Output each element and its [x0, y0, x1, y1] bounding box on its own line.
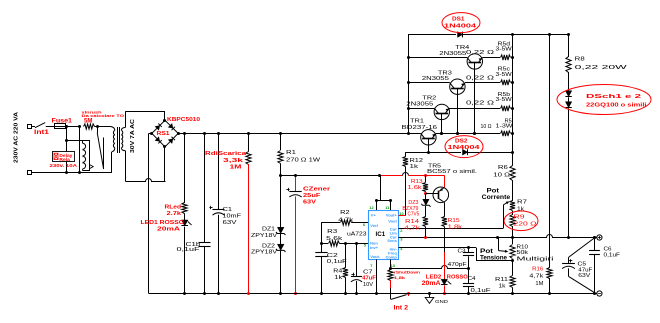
svg-text:R16: R16	[532, 267, 543, 273]
wire R7 wiper to pin2	[503, 205, 505, 228]
svg-text:C4: C4	[468, 276, 476, 282]
svg-text:0,1uF: 0,1uF	[327, 259, 347, 265]
svg-text:Fuse1: Fuse1	[52, 119, 73, 125]
svg-text:3-5W: 3-5W	[496, 97, 512, 103]
svg-text:DS2: DS2	[455, 138, 468, 144]
resistor rShutDown 1.8k	[388, 270, 393, 281]
wire IC1 pin10 red stub	[399, 215, 406, 217]
diode DSch2 22GQ100	[568, 97, 570, 101]
fuse Fuse1	[55, 124, 66, 129]
svg-text:V+: V+	[371, 213, 377, 218]
svg-text:GND: GND	[435, 299, 449, 304]
capacitor C6 0.1uF	[594, 237, 596, 250]
svg-text:R12: R12	[410, 158, 424, 164]
wire relay coil feed	[67, 140, 83, 142]
resistor R7 1k	[512, 180, 514, 201]
relay K1 contact	[97, 127, 99, 133]
svg-text:0,22 Ω: 0,22 Ω	[466, 76, 494, 82]
svg-text:Multigiri: Multigiri	[517, 257, 554, 263]
svg-text:DZ2: DZ2	[262, 243, 275, 249]
resistor R5c 0.22ohm	[465, 82, 500, 84]
svg-text:IC1: IC1	[376, 231, 386, 238]
svg-text:C1: C1	[223, 207, 233, 213]
wire node B down to neutral	[79, 127, 81, 173]
LED LED1	[184, 214, 186, 221]
zener DZ2 ZPY18V	[277, 244, 284, 250]
resistor R12 1k	[405, 167, 407, 216]
op-amp IC1 uA723 body	[369, 211, 399, 260]
svg-text:Vout-: Vout-	[370, 254, 381, 259]
svg-text:25uF: 25uF	[303, 193, 321, 199]
svg-text:1k: 1k	[517, 207, 525, 213]
resistor R8 0.22 20W	[568, 35, 570, 58]
resistor R9 220ohm	[512, 211, 514, 215]
svg-text:RS1: RS1	[157, 131, 170, 137]
svg-text:1N4004: 1N4004	[444, 24, 476, 30]
svg-text:TR1: TR1	[410, 119, 424, 125]
svg-text:Comp: Comp	[385, 255, 397, 260]
diode DS2 1N4004	[463, 149, 468, 155]
svg-text:1-3W: 1-3W	[496, 124, 513, 130]
svg-text:KBPC5010: KBPC5010	[167, 117, 200, 123]
svg-text:Int 2: Int 2	[394, 305, 409, 312]
svg-text:0,22 20W: 0,22 20W	[575, 65, 627, 71]
resistor R16 4.7k 1M bleeder	[549, 35, 551, 268]
wire bottom ground rail	[149, 293, 597, 295]
svg-text:C7: C7	[363, 269, 373, 275]
svg-text:1.6k: 1.6k	[408, 185, 423, 191]
wire node A down to neutral	[66, 127, 68, 173]
resistor R11 1k	[512, 260, 514, 275]
svg-text:Da calcolare TO: Da calcolare TO	[82, 114, 125, 118]
resistor RdiScarica 3.3k 1M	[248, 134, 250, 152]
transistor TR2 2N3055	[408, 108, 434, 110]
IC1 pin 13 wire	[390, 260, 392, 269]
svg-text:R7: R7	[517, 199, 527, 205]
svg-text:Vref: Vref	[370, 223, 378, 228]
svg-text:R4: R4	[333, 269, 342, 275]
svg-text:C2: C2	[327, 253, 338, 259]
diode DSch1 22GQ100	[568, 72, 570, 91]
svg-text:2N3055: 2N3055	[422, 76, 449, 82]
svg-text:4,7k: 4,7k	[404, 225, 420, 231]
svg-text:2N3055: 2N3055	[406, 101, 433, 107]
svg-text:22GQ100 o simili: 22GQ100 o simili	[586, 102, 647, 108]
LED LED2	[441, 279, 447, 284]
diode DS1 1N4004	[458, 32, 463, 38]
wire TR1 base line	[405, 152, 461, 154]
svg-text:ROSSO: ROSSO	[447, 275, 469, 281]
resistor R5d 0.22ohm	[482, 57, 500, 59]
svg-text:R15: R15	[448, 218, 460, 224]
svg-text:5,6k: 5,6k	[326, 236, 343, 242]
transformer T1 secondary	[121, 130, 122, 134]
wire top rail with DS1	[408, 34, 456, 36]
transistor TR1 BD237-16	[421, 130, 436, 145]
svg-text:2.7k: 2.7k	[167, 211, 182, 217]
svg-text:3,3k: 3,3k	[223, 158, 243, 164]
wire output plus	[569, 237, 597, 239]
svg-text:R11: R11	[495, 277, 508, 283]
svg-text:30V 7A AC: 30V 7A AC	[130, 119, 136, 153]
wire secondary top to bridge	[126, 111, 166, 113]
wire RdiScarica to ground red	[248, 164, 250, 294]
svg-text:0,1uF: 0,1uF	[604, 253, 621, 259]
svg-text:C6: C6	[604, 246, 612, 252]
IC1 pin 12 wire	[376, 201, 378, 210]
svg-text:2N3055: 2N3055	[439, 51, 466, 57]
svg-text:R6: R6	[498, 165, 508, 171]
svg-text:RdiScarica: RdiScarica	[205, 151, 247, 157]
svg-text:4,7k: 4,7k	[338, 217, 354, 223]
svg-text:220 Ω: 220 Ω	[514, 222, 537, 228]
wire pin13 to C3 junction with hop	[391, 266, 470, 269]
capacitor C3 470pF	[468, 248, 470, 253]
svg-text:3-5W: 3-5W	[496, 47, 512, 53]
svg-text:DZ1: DZ1	[262, 226, 275, 232]
svg-text:10V: 10V	[363, 282, 374, 288]
svg-text:LED1 ROSSO: LED1 ROSSO	[141, 220, 185, 226]
svg-text:Vout+: Vout+	[386, 213, 398, 218]
svg-text:0,22 Ω: 0,22 Ω	[466, 50, 494, 56]
IC1 pin 11 wire	[390, 201, 392, 210]
node mains neutral terminal	[28, 171, 32, 175]
svg-text:230v. 10A: 230v. 10A	[50, 163, 78, 168]
svg-text:0,1uF: 0,1uF	[177, 247, 200, 253]
resistor Rinrush 5M	[84, 124, 95, 129]
svg-text:20mA: 20mA	[422, 280, 442, 287]
svg-text:ZPY18V: ZPY18V	[251, 250, 278, 256]
wire R2 Vref line	[321, 222, 340, 224]
resistor R4 1k	[345, 243, 347, 267]
resistor R5b 0.22ohm	[449, 108, 500, 110]
svg-text:C7V5: C7V5	[408, 212, 420, 218]
svg-text:R2: R2	[340, 210, 350, 216]
transistor TR4 2N3055	[408, 57, 467, 59]
wire node C to transformer primary	[97, 126, 110, 128]
capacitor C4 0.1uF	[468, 269, 470, 284]
svg-text:63V: 63V	[578, 273, 591, 279]
svg-text:470pF: 470pF	[448, 262, 467, 268]
svg-text:Rela: Rela	[59, 157, 70, 162]
zener DZ3 BZX79 C7V5	[425, 194, 427, 199]
capacitor C5 47uF 63V	[569, 238, 595, 258]
svg-text:7: 7	[370, 263, 372, 268]
svg-text:20mA: 20mA	[157, 227, 180, 233]
svg-text:1,8k: 1,8k	[448, 225, 463, 231]
node output plus terminal	[597, 235, 602, 240]
resistor R6 10ohm	[512, 152, 514, 166]
svg-text:47uF: 47uF	[362, 276, 376, 282]
svg-text:10 Ω: 10 Ω	[481, 124, 492, 130]
svg-text:Tensione: Tensione	[480, 255, 508, 261]
svg-text:C3: C3	[458, 248, 466, 254]
resistor R1 270ohm 1W	[280, 134, 282, 151]
svg-text:0,1uF: 0,1uF	[471, 288, 491, 294]
node mains live terminal	[28, 125, 32, 129]
switch Int1	[31, 126, 35, 128]
wire live to fuse	[46, 126, 55, 128]
svg-text:ZPY18V: ZPY18V	[251, 233, 278, 239]
svg-text:DSch1 e 2: DSch1 e 2	[586, 94, 641, 100]
wire pins 12-11 tie to V+	[376, 200, 391, 202]
resistor R14 4.7k	[423, 217, 428, 227]
svg-text:R1: R1	[286, 150, 296, 156]
wire bridge plus to rail	[178, 133, 185, 135]
svg-text:DS1: DS1	[452, 16, 465, 22]
svg-text:Vout: Vout	[388, 218, 397, 223]
switch Int2	[391, 295, 407, 300]
node output minus terminal	[597, 291, 602, 296]
capacitor C7 47uF 10V	[356, 243, 358, 276]
resistor RLed 2.7k	[184, 134, 186, 204]
svg-text:R3: R3	[327, 229, 337, 235]
wire rShutDown to Int2 red	[390, 280, 392, 288]
resistor R13 1.6k	[425, 175, 427, 182]
resistor R3 5.6k	[321, 243, 328, 245]
zener DZ1 ZPY18V	[277, 227, 284, 233]
wire emitter bus	[512, 35, 514, 153]
wire R10 wiper	[498, 237, 500, 250]
svg-text:Pot: Pot	[480, 249, 493, 255]
wire collector riser	[408, 35, 410, 134]
svg-text:BD237-16: BD237-16	[402, 125, 438, 131]
label Delay Rela box	[53, 152, 75, 162]
svg-text:Inv+: Inv+	[370, 245, 379, 250]
svg-text:Corrente: Corrente	[482, 195, 511, 201]
wire secondary bottom to bridge with hop	[126, 179, 166, 182]
capacitor CZener 25uF 63V	[295, 175, 297, 191]
wire IC1 pin2 line	[399, 228, 504, 230]
svg-text:R9: R9	[514, 215, 525, 221]
svg-text:230V AC 220 VA: 230V AC 220 VA	[14, 112, 20, 163]
wire IC1 pin3 sense line with hop	[399, 235, 569, 238]
wire IC1 pin4 line	[399, 247, 469, 249]
wire R2 corner down	[321, 223, 323, 244]
svg-text:CZener: CZener	[303, 187, 331, 193]
svg-text:Int1: Int1	[34, 130, 50, 136]
svg-text:uA723: uA723	[347, 232, 367, 238]
wire fuse to node A	[66, 126, 80, 128]
resistor R5 10ohm	[436, 133, 500, 135]
svg-text:rShutDown: rShutDown	[394, 271, 420, 275]
svg-text:63V: 63V	[303, 200, 317, 206]
svg-text:1,8k: 1,8k	[394, 276, 405, 280]
svg-text:1M: 1M	[230, 165, 243, 171]
svg-text:R8: R8	[575, 56, 585, 62]
wire R15 to LED2 red	[444, 227, 446, 252]
ground GND	[429, 294, 431, 298]
wire V+ aux line	[281, 175, 380, 177]
potentiometer R10 50k Multigiri	[512, 237, 514, 244]
transformer T1 primary	[111, 127, 115, 131]
svg-text:Sens: Sens	[387, 238, 397, 243]
capacitor C1b 0.1uF	[204, 134, 206, 243]
capacitor C2 0.1uF	[321, 243, 323, 253]
relay actuator arrow	[90, 165, 94, 169]
svg-text:Pot: Pot	[487, 189, 500, 195]
transistor TR3 2N3055	[408, 82, 450, 84]
capacitor C1 10mF 63V	[218, 134, 220, 210]
svg-text:10mF: 10mF	[223, 214, 242, 220]
svg-text:BC557 o simil.: BC557 o simil.	[427, 169, 477, 175]
bridge rectifier RS1 KBPC5010	[152, 120, 178, 147]
svg-text:10 Ω: 10 Ω	[493, 173, 510, 179]
svg-text:4,7k: 4,7k	[529, 274, 544, 280]
svg-text:270 Ω 1W: 270 Ω 1W	[286, 158, 320, 164]
svg-text:R14: R14	[405, 219, 419, 225]
svg-text:63V: 63V	[223, 220, 238, 226]
svg-text:0,22 Ω: 0,22 Ω	[466, 101, 494, 107]
transformer T1 core	[117, 127, 119, 153]
wire neutral line	[31, 172, 112, 174]
svg-text:50k: 50k	[517, 250, 529, 256]
svg-text:1N4004: 1N4004	[448, 145, 480, 151]
relay K1 coil	[83, 141, 90, 171]
resistor R15 1.8k	[444, 202, 446, 216]
svg-text:1k: 1k	[499, 283, 507, 289]
resistor R2 4.7k	[341, 220, 352, 225]
transistor TR5 BC557	[433, 187, 449, 203]
svg-text:RLed: RLed	[165, 205, 182, 211]
wire bridge minus down	[149, 133, 152, 135]
wire main DC rail	[185, 133, 421, 135]
IC1 pin 7 wire to ground	[376, 260, 378, 294]
svg-text:3-5W: 3-5W	[496, 72, 512, 78]
svg-text:1k: 1k	[410, 164, 419, 170]
wire V+ aux line red with hop over R12 column	[380, 175, 403, 177]
svg-text:1k: 1k	[334, 275, 343, 281]
svg-text:1M: 1M	[535, 281, 543, 287]
